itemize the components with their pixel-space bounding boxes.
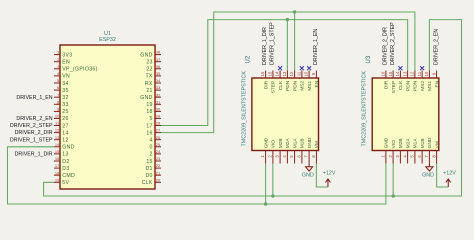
svg-text:VIO: VIO bbox=[391, 140, 397, 149]
svg-text:EN: EN bbox=[62, 59, 70, 65]
U1 left pin 6 35 bbox=[54, 89, 60, 91]
svg-text:CLK: CLK bbox=[142, 180, 153, 186]
wire net UART line B (GPIO17 to PDN pins) bbox=[161, 20, 408, 126]
svg-text:22: 22 bbox=[146, 67, 152, 73]
junction line B / U2 PDN bbox=[286, 18, 289, 21]
svg-text:M2A: M2A bbox=[285, 138, 291, 149]
svg-text:DIR: DIR bbox=[263, 80, 269, 89]
svg-text:24: 24 bbox=[156, 149, 161, 154]
svg-text:M1B: M1B bbox=[420, 138, 426, 148]
svg-text:23: 23 bbox=[156, 156, 161, 161]
U1 right pin 25 0 bbox=[155, 146, 161, 148]
U2 bottom pin 6 M1B bbox=[301, 151, 303, 164]
svg-text:11: 11 bbox=[417, 71, 422, 76]
svg-text:GND: GND bbox=[384, 137, 390, 148]
svg-text:33: 33 bbox=[62, 102, 68, 108]
U1 left pin 5 34 bbox=[54, 82, 60, 84]
U1 left pin 11 27 bbox=[54, 125, 60, 127]
svg-text:DRIVER_2_EN: DRIVER_2_EN bbox=[433, 29, 439, 65]
svg-text:DIR: DIR bbox=[384, 80, 390, 89]
svg-text:PDN: PDN bbox=[413, 80, 419, 91]
svg-text:TX: TX bbox=[145, 74, 152, 80]
U2 top pin 15 STEP bbox=[272, 71, 274, 79]
svg-text:35: 35 bbox=[62, 88, 68, 94]
U1 left pin 8 33 bbox=[54, 103, 60, 105]
svg-text:15: 15 bbox=[388, 71, 393, 76]
svg-text:4: 4 bbox=[150, 138, 153, 144]
IC U1 ESP32 body bbox=[60, 45, 155, 189]
svg-text:MS1: MS1 bbox=[307, 80, 313, 90]
svg-text:ESP32: ESP32 bbox=[99, 37, 116, 43]
power GND under U2 bbox=[306, 164, 313, 172]
wire VM of U2 to +12V bbox=[316, 164, 328, 188]
svg-text:DRIVER_2_DIR: DRIVER_2_DIR bbox=[15, 130, 53, 136]
svg-text:D2: D2 bbox=[62, 159, 69, 165]
svg-text:PDN: PDN bbox=[292, 80, 298, 91]
svg-text:16: 16 bbox=[260, 71, 265, 76]
svg-text:VM: VM bbox=[434, 141, 440, 148]
svg-text:DRIVER_1_DIR: DRIVER_1_DIR bbox=[262, 27, 268, 65]
U2 top pin 12 PDN bbox=[294, 71, 296, 79]
svg-text:19: 19 bbox=[146, 102, 152, 108]
svg-text:14: 14 bbox=[275, 71, 280, 76]
no-connect U2 CLK bbox=[278, 66, 282, 70]
svg-text:33: 33 bbox=[156, 85, 161, 90]
svg-text:CLK: CLK bbox=[398, 80, 404, 90]
U2 top pin 9 EN bbox=[315, 71, 317, 79]
U2 bottom pin 4 M2A bbox=[286, 151, 288, 164]
svg-text:17: 17 bbox=[146, 123, 152, 129]
U1 left pin 1 3V3 bbox=[54, 54, 60, 56]
svg-text:21: 21 bbox=[156, 170, 161, 175]
svg-text:15: 15 bbox=[55, 149, 60, 154]
U2 top pin 11 MS2 bbox=[301, 71, 303, 79]
svg-text:13: 13 bbox=[62, 152, 68, 158]
svg-text:DRIVER_2_DIR: DRIVER_2_DIR bbox=[383, 27, 389, 65]
U3 bottom pin 2 VIO bbox=[392, 151, 394, 164]
svg-text:19: 19 bbox=[55, 177, 60, 182]
svg-text:5V: 5V bbox=[62, 180, 69, 186]
svg-text:16: 16 bbox=[381, 71, 386, 76]
svg-text:GND: GND bbox=[302, 173, 314, 179]
U1 left pin 17 D3 bbox=[54, 167, 60, 169]
junction GND rail / U2 bbox=[264, 202, 267, 205]
svg-text:MS2: MS2 bbox=[420, 80, 426, 90]
svg-text:M1A: M1A bbox=[292, 138, 298, 149]
svg-text:22: 22 bbox=[156, 163, 161, 168]
power GND under U3 bbox=[426, 164, 433, 172]
svg-text:12: 12 bbox=[410, 71, 415, 76]
U1 right pin 35 TX bbox=[155, 75, 161, 77]
svg-text:GND: GND bbox=[263, 137, 269, 148]
svg-text:PDN: PDN bbox=[285, 80, 291, 91]
U3 bottom pin 7 GND bbox=[428, 151, 430, 164]
svg-text:D0: D0 bbox=[145, 173, 152, 179]
svg-text:25: 25 bbox=[62, 109, 68, 115]
svg-text:16: 16 bbox=[55, 156, 60, 161]
U1 right pin 21 D0 bbox=[155, 174, 161, 176]
svg-text:CLK: CLK bbox=[278, 80, 284, 90]
svg-text:3V3: 3V3 bbox=[62, 52, 72, 58]
svg-text:TMC2209_SILENTSTEPSTICK: TMC2209_SILENTSTEPSTICK bbox=[241, 71, 247, 147]
svg-text:25: 25 bbox=[156, 142, 161, 147]
U1 left pin 12 14 bbox=[54, 132, 60, 134]
U2 top pin 16 DIR bbox=[265, 71, 267, 79]
svg-text:EN: EN bbox=[314, 80, 320, 87]
svg-text:30: 30 bbox=[156, 106, 161, 111]
svg-text:23: 23 bbox=[146, 59, 152, 65]
svg-text:M1B: M1B bbox=[300, 138, 306, 148]
svg-text:DRIVER_2_STEP: DRIVER_2_STEP bbox=[390, 22, 396, 65]
U1 left pin 16 D2 bbox=[54, 160, 60, 162]
svg-text:D3: D3 bbox=[62, 166, 69, 172]
svg-text:0: 0 bbox=[150, 145, 153, 151]
svg-text:MS1: MS1 bbox=[427, 80, 433, 90]
svg-text:16: 16 bbox=[146, 130, 152, 136]
svg-text:31: 31 bbox=[156, 99, 161, 104]
U1 left pin 9 25 bbox=[54, 110, 60, 112]
IC U3 TMC2209_SilentStepStick body bbox=[372, 78, 439, 151]
U1 right pin 22 D1 bbox=[155, 167, 161, 169]
U3 bottom pin 8 VM bbox=[436, 151, 438, 164]
U1 right pin 31 19 bbox=[155, 103, 161, 105]
IC U2 TMC2209_SilentStepStick body bbox=[252, 78, 319, 151]
U2 bottom pin 7 GND bbox=[308, 151, 310, 164]
U3 top pin 14 CLK bbox=[399, 71, 401, 79]
junction line A / U2 PDN bbox=[293, 10, 296, 13]
U2 bottom pin 5 M1A bbox=[294, 151, 296, 164]
U1 right pin 27 16 bbox=[155, 132, 161, 134]
svg-text:M2A: M2A bbox=[405, 138, 411, 149]
svg-text:DRIVER_1_EN: DRIVER_1_EN bbox=[313, 29, 319, 65]
U1 right pin 24 2 bbox=[155, 153, 161, 155]
U3 top pin 16 DIR bbox=[385, 71, 387, 79]
svg-text:DRIVER_2_EN: DRIVER_2_EN bbox=[16, 116, 52, 122]
U2 bottom pin 3 M2B bbox=[279, 151, 281, 164]
U3 bottom pin 3 M2B bbox=[399, 151, 401, 164]
svg-text:37: 37 bbox=[156, 57, 161, 62]
U1 right pin 23 15 bbox=[155, 160, 161, 162]
svg-text:VP_(GPIO36): VP_(GPIO36) bbox=[62, 67, 97, 73]
U1 right pin 28 17 bbox=[155, 125, 161, 127]
svg-text:29: 29 bbox=[156, 114, 161, 119]
wire net UART line A (GPIO16 to PDN pins) bbox=[161, 12, 415, 133]
svg-text:35: 35 bbox=[156, 71, 161, 76]
wire U2 GND to rail bbox=[265, 164, 267, 205]
svg-text:18: 18 bbox=[55, 170, 60, 175]
wire VM of U3 to +12V bbox=[437, 164, 449, 188]
U2 bottom pin 1 GND bbox=[265, 151, 267, 164]
svg-text:EN: EN bbox=[434, 80, 440, 87]
svg-text:13: 13 bbox=[55, 135, 60, 140]
U3 bottom pin 5 M1A bbox=[414, 151, 416, 164]
U1 right pin 36 22 bbox=[155, 68, 161, 70]
svg-text:14: 14 bbox=[55, 142, 60, 147]
svg-text:26: 26 bbox=[156, 135, 161, 140]
power +12V at U2 bbox=[326, 179, 331, 187]
U2 top pin 14 CLK bbox=[279, 71, 281, 79]
svg-text:GND: GND bbox=[427, 137, 433, 148]
svg-text:D1: D1 bbox=[145, 166, 152, 172]
svg-text:GND: GND bbox=[62, 145, 74, 151]
U3 bottom pin 6 M1B bbox=[421, 151, 423, 164]
U1 left pin 14 GND bbox=[54, 146, 60, 148]
svg-text:GND: GND bbox=[140, 52, 152, 58]
svg-text:27: 27 bbox=[62, 123, 68, 129]
U1 left pin 4 VN bbox=[54, 75, 60, 77]
svg-text:VM: VM bbox=[314, 141, 320, 148]
svg-text:+12V: +12V bbox=[323, 171, 336, 177]
U1 right pin 26 4 bbox=[155, 139, 161, 141]
svg-text:PDN: PDN bbox=[405, 80, 411, 91]
svg-text:20: 20 bbox=[156, 177, 161, 182]
wire U2 VIO to 5V rail bbox=[272, 164, 274, 197]
svg-text:DRIVER_1_DIR: DRIVER_1_DIR bbox=[15, 152, 53, 158]
svg-text:DRIVER_1_STEP: DRIVER_1_STEP bbox=[10, 137, 53, 143]
svg-text:26: 26 bbox=[62, 116, 68, 122]
svg-text:15: 15 bbox=[267, 71, 272, 76]
svg-text:27: 27 bbox=[156, 128, 161, 133]
U3 top pin 13 PDN bbox=[407, 71, 409, 79]
svg-text:12: 12 bbox=[55, 128, 60, 133]
svg-text:DRIVER_2_STEP: DRIVER_2_STEP bbox=[10, 123, 53, 129]
U1 right pin 29 5 bbox=[155, 117, 161, 119]
svg-text:M1A: M1A bbox=[413, 138, 419, 149]
no-connect U3 CLK bbox=[398, 66, 402, 70]
svg-text:CMD: CMD bbox=[62, 173, 75, 179]
U3 top pin 11 MS2 bbox=[421, 71, 423, 79]
U1 left pin 2 EN bbox=[54, 61, 60, 63]
svg-text:13: 13 bbox=[282, 71, 287, 76]
U2 top pin 10 MS1 bbox=[308, 71, 310, 79]
wire branch line B to U2 PDN bbox=[286, 20, 288, 71]
U1 left pin 7 32 bbox=[54, 96, 60, 98]
U1 right pin 20 CLK bbox=[155, 181, 161, 183]
svg-text:18: 18 bbox=[146, 109, 152, 115]
wire U3 VIO to 5V rail bbox=[392, 164, 394, 197]
U2 top pin 13 PDN bbox=[286, 71, 288, 79]
svg-text:M2B: M2B bbox=[278, 138, 284, 148]
svg-text:17: 17 bbox=[55, 163, 60, 168]
svg-text:+12V: +12V bbox=[443, 171, 456, 177]
U1 left pin 15 13 bbox=[54, 153, 60, 155]
svg-text:TMC2209_SILENTSTEPSTICK: TMC2209_SILENTSTEPSTICK bbox=[362, 71, 368, 147]
svg-text:12: 12 bbox=[62, 138, 68, 144]
svg-text:11: 11 bbox=[296, 71, 301, 76]
U3 top pin 12 PDN bbox=[414, 71, 416, 79]
svg-text:34: 34 bbox=[156, 78, 161, 83]
svg-text:M2B: M2B bbox=[398, 138, 404, 148]
U1 right pin 34 RX bbox=[155, 82, 161, 84]
svg-text:U3: U3 bbox=[366, 55, 372, 63]
U3 bottom pin 1 GND bbox=[385, 151, 387, 164]
svg-text:28: 28 bbox=[156, 121, 161, 126]
svg-text:10: 10 bbox=[424, 71, 429, 76]
U3 bottom pin 4 M2A bbox=[407, 151, 409, 164]
svg-text:21: 21 bbox=[146, 88, 152, 94]
U1 left pin 3 VP_(GPIO36) bbox=[54, 68, 60, 70]
svg-text:VIO: VIO bbox=[271, 140, 277, 149]
no-connect U2 MS1 bbox=[307, 66, 311, 70]
U3 top pin 10 MS1 bbox=[428, 71, 430, 79]
svg-text:DRIVER_1_STEP: DRIVER_1_STEP bbox=[269, 22, 275, 65]
U2 bottom pin 8 VM bbox=[315, 151, 317, 164]
svg-text:GND: GND bbox=[422, 173, 434, 179]
svg-text:32: 32 bbox=[62, 95, 68, 101]
svg-text:12: 12 bbox=[289, 71, 294, 76]
U3 top pin 15 STEP bbox=[392, 71, 394, 79]
no-connect U3 MS2 bbox=[420, 66, 424, 70]
U3 top pin 9 EN bbox=[436, 71, 438, 79]
U1 left pin 10 26 bbox=[54, 117, 60, 119]
wire net GND rail bbox=[8, 147, 386, 204]
U1 left pin 18 CMD bbox=[54, 174, 60, 176]
svg-text:RX: RX bbox=[145, 81, 153, 87]
svg-text:14: 14 bbox=[395, 71, 400, 76]
svg-text:10: 10 bbox=[55, 114, 60, 119]
U1 left pin 19 5V bbox=[54, 181, 60, 183]
U1 right pin 37 23 bbox=[155, 61, 161, 63]
svg-text:10: 10 bbox=[304, 71, 309, 76]
svg-text:U2: U2 bbox=[246, 55, 252, 63]
svg-text:38: 38 bbox=[156, 50, 161, 55]
svg-text:2: 2 bbox=[150, 152, 153, 158]
svg-text:13: 13 bbox=[402, 71, 407, 76]
svg-text:32: 32 bbox=[156, 92, 161, 97]
svg-text:VN: VN bbox=[62, 74, 70, 80]
junction 5V rail / U2 VIO bbox=[271, 194, 274, 197]
svg-text:STEP: STEP bbox=[391, 81, 397, 94]
svg-text:GND: GND bbox=[140, 95, 152, 101]
svg-text:34: 34 bbox=[62, 81, 68, 87]
wire net 5V rail (to U3 MS1) bbox=[44, 20, 462, 196]
svg-text:STEP: STEP bbox=[271, 81, 277, 94]
svg-text:DRIVER_1_EN: DRIVER_1_EN bbox=[16, 95, 52, 101]
wire branch line A to U2 PDN bbox=[294, 12, 296, 71]
U1 right pin 33 21 bbox=[155, 89, 161, 91]
junction 5V rail / U3 VIO bbox=[391, 194, 394, 197]
power +12V at U3 bbox=[446, 179, 451, 187]
no-connect U2 MS2 bbox=[300, 66, 304, 70]
U1 right pin 32 GND bbox=[155, 96, 161, 98]
svg-text:36: 36 bbox=[156, 64, 161, 69]
U1 right pin 38 GND bbox=[155, 54, 161, 56]
svg-text:MS2: MS2 bbox=[300, 80, 306, 90]
svg-text:14: 14 bbox=[62, 130, 68, 136]
svg-text:15: 15 bbox=[146, 159, 152, 165]
U1 left pin 13 12 bbox=[54, 139, 60, 141]
U1 right pin 30 18 bbox=[155, 110, 161, 112]
U2 bottom pin 2 VIO bbox=[272, 151, 274, 164]
svg-text:GND: GND bbox=[307, 137, 313, 148]
svg-text:5: 5 bbox=[150, 116, 153, 122]
